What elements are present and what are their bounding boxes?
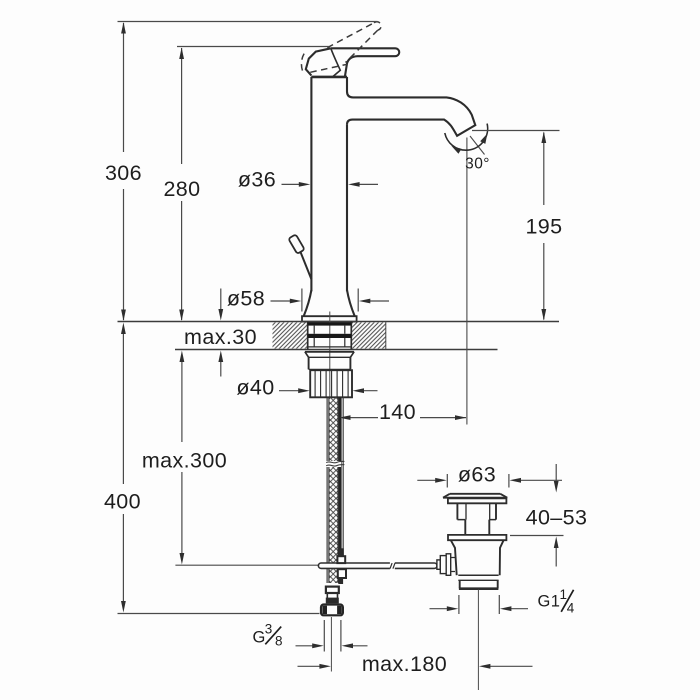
dimension G3/8 <box>253 617 368 672</box>
svg-text:40–53: 40–53 <box>526 506 588 530</box>
countertop bottom line <box>175 349 498 351</box>
base flange disc <box>302 316 357 321</box>
faucet lever handle <box>331 48 399 76</box>
extension line top (306) <box>118 21 378 23</box>
drain flange cap (ø63) <box>443 494 507 504</box>
drain cup bottom <box>458 575 498 589</box>
dimension ø40 <box>236 376 377 400</box>
drain collar plate <box>448 535 506 540</box>
svg-text:max.300: max.300 <box>142 449 227 473</box>
faucet body tube <box>311 77 347 291</box>
svg-text:ø40: ø40 <box>236 376 274 400</box>
mounting shank centerline <box>329 312 331 398</box>
extension line top (280) <box>177 46 329 48</box>
svg-text:30°: 30° <box>465 156 490 173</box>
drain narrow mid <box>465 520 489 535</box>
svg-text:400: 400 <box>104 490 141 514</box>
svg-text:140: 140 <box>379 400 416 424</box>
svg-text:280: 280 <box>163 177 200 201</box>
dimension 400 <box>104 323 141 613</box>
base flare <box>304 290 355 316</box>
pop-up rod beside hose <box>342 397 344 561</box>
countertop hatch right <box>351 322 385 350</box>
dimension 195 <box>525 132 562 321</box>
spout <box>347 92 475 136</box>
dimension max.300 <box>142 351 227 565</box>
knurled nut (ø40) <box>310 370 352 397</box>
svg-text:ø58: ø58 <box>227 287 265 311</box>
svg-text:G: G <box>253 629 266 647</box>
extension line hose end (400) <box>118 613 320 615</box>
rod to drain coupling <box>437 554 455 576</box>
dimension 140 <box>339 400 467 424</box>
svg-text:G1: G1 <box>538 593 561 611</box>
dimension 280 <box>163 48 200 322</box>
dimension G1 1/4 <box>430 587 575 616</box>
drain upper neck <box>457 503 496 519</box>
dimension max.180 <box>298 652 533 676</box>
svg-text:max.180: max.180 <box>362 652 447 676</box>
shank o-ring seal lower <box>308 334 352 338</box>
max.300 extension line <box>175 564 318 566</box>
drain centerline <box>477 590 479 691</box>
horizontal pop-up rod <box>318 562 437 570</box>
svg-text:306: 306 <box>105 161 142 185</box>
dimension 40-53 <box>510 464 587 567</box>
dimension ø58 <box>227 287 389 312</box>
svg-text:3: 3 <box>265 622 273 637</box>
countertop top line <box>118 321 560 323</box>
dimension 306 <box>105 22 142 321</box>
flexible supply hose lower segment <box>327 467 340 583</box>
30 degree swivel arc <box>445 124 490 425</box>
shank o-ring seal upper <box>308 323 352 326</box>
svg-text:195: 195 <box>525 215 562 239</box>
dashed raised handle (open position) <box>301 22 381 74</box>
dimension max.30 <box>184 289 257 377</box>
hose end nut (G3/8) <box>321 605 343 616</box>
hose break symbol <box>326 461 344 466</box>
dimension ø36 <box>238 168 378 192</box>
countertop hatch left <box>273 322 308 348</box>
drain cup <box>451 540 504 575</box>
pop-up pull rod knob on body <box>288 234 311 279</box>
dimension ø63 <box>417 463 562 488</box>
svg-text:ø63: ø63 <box>458 463 496 487</box>
svg-text:4: 4 <box>567 601 575 616</box>
locknut under counter <box>305 352 354 370</box>
svg-text:8: 8 <box>275 634 283 649</box>
svg-text:max.30: max.30 <box>184 325 257 349</box>
pop-up rod clamp <box>337 549 346 584</box>
extension line spout tip (195) <box>472 130 560 132</box>
flexible supply hose upper segment <box>327 397 340 461</box>
svg-text:ø36: ø36 <box>238 168 276 192</box>
faucet handle knob <box>306 48 347 77</box>
hose end ferrule <box>326 587 339 603</box>
mounting shank walls <box>308 322 352 350</box>
